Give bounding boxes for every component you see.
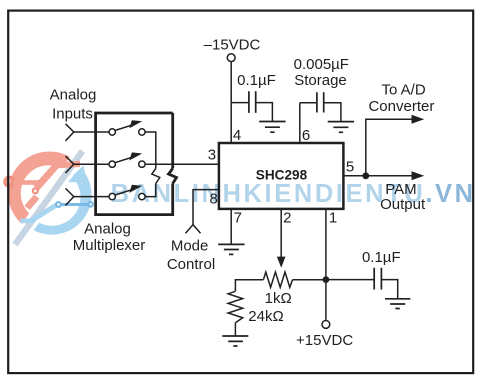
svg-text:To A/D: To A/D	[382, 82, 426, 99]
arrowhead pin2 down	[277, 257, 286, 268]
ground G4	[222, 336, 248, 346]
blue end donut	[88, 202, 93, 207]
red lower block	[25, 195, 40, 210]
wire pin3 from mux to SHC298	[145, 163, 219, 165]
junction dot node B (pin1/pot)	[323, 276, 330, 283]
red trace bar	[14, 180, 40, 185]
ground G5	[385, 299, 410, 309]
capacitor C1 0.1uF plates	[249, 91, 256, 113]
junction dot node A (pin5)	[362, 172, 369, 179]
switch S1 arm arrowhead	[129, 120, 142, 128]
wire row3	[74, 196, 109, 198]
switch S2 right contact	[139, 161, 145, 167]
wire cap3 to ground	[381, 280, 397, 299]
wire pin4 vertical	[230, 62, 232, 143]
wire pot right to node	[293, 279, 326, 281]
svg-text:Storage: Storage	[294, 72, 347, 89]
svg-text:0.005µF: 0.005µF	[294, 56, 349, 73]
svg-text:24kΩ: 24kΩ	[248, 308, 283, 325]
svg-text:1kΩ: 1kΩ	[265, 290, 292, 307]
wire pin5	[344, 175, 366, 177]
terminal -15VDC circle	[227, 54, 235, 62]
ground G3	[218, 244, 244, 254]
input chevron row3	[66, 188, 74, 205]
wire node to cap3	[326, 279, 374, 281]
pale slash	[12, 149, 85, 246]
mux right edge zigzag break	[169, 169, 177, 184]
svg-text:Analog: Analog	[50, 86, 97, 103]
svg-text:1: 1	[329, 210, 337, 227]
wire row1 output to bus	[145, 132, 156, 164]
red small donut	[33, 188, 38, 193]
svg-text:Converter: Converter	[368, 98, 434, 115]
svg-text:2: 2	[283, 210, 291, 227]
wire pot left	[235, 280, 263, 292]
potentiometer R1 1k zigzag	[263, 272, 292, 287]
wire cap2 branch	[300, 102, 317, 104]
switch S2 arm arrowhead	[129, 152, 142, 160]
svg-text:–15VDC: –15VDC	[204, 36, 261, 53]
wire pin8 mode control	[193, 190, 219, 225]
svg-text:6: 6	[302, 127, 310, 144]
wire cap1 branch	[231, 102, 249, 104]
ground G2	[328, 122, 354, 133]
svg-text:SHC298: SHC298	[256, 168, 308, 183]
switch arm row3	[115, 190, 133, 196]
wire pin2 down	[280, 209, 282, 259]
svg-text:0.1µF: 0.1µF	[237, 72, 276, 89]
resistor R2 24k zigzag	[228, 291, 243, 323]
svg-text:Multiplexer: Multiplexer	[73, 237, 146, 254]
wire R2 to ground	[234, 323, 236, 336]
svg-text:+15VDC: +15VDC	[296, 332, 353, 349]
white slash gap	[8, 145, 89, 250]
svg-text:Mode: Mode	[171, 237, 209, 254]
switch S1 right contact	[139, 129, 145, 135]
svg-text:0.1µF: 0.1µF	[362, 249, 401, 266]
wire pin1 down	[325, 209, 327, 321]
switch S1 left contact	[109, 129, 115, 135]
mode control chevron	[186, 225, 201, 234]
wire pin6 vertical	[299, 103, 301, 143]
capacitor C3 0.1uF plates	[374, 268, 381, 290]
arrowhead PAM	[412, 171, 425, 180]
wire cap2 to ground	[324, 103, 341, 122]
wire row2 chevron	[66, 156, 74, 173]
wire pin7 to ground	[230, 209, 232, 244]
wire PAM out	[366, 175, 413, 177]
SHC298 box	[219, 143, 344, 209]
blue arrow tip	[67, 166, 87, 183]
wire node up	[366, 119, 413, 176]
input chevron row1	[66, 124, 74, 141]
wire row3 output to bus with zigzag	[145, 164, 156, 196]
svg-text:7: 7	[234, 210, 242, 227]
watermark logo	[5, 145, 93, 250]
svg-text:Inputs: Inputs	[52, 105, 93, 122]
switch arm row2	[115, 157, 133, 163]
svg-text:5: 5	[346, 158, 354, 175]
capacitor C2 0.005uF plates	[317, 92, 324, 112]
svg-text:3: 3	[208, 146, 216, 163]
terminal +15VDC circle	[322, 321, 330, 329]
analog multiplexer box (right edge has break)	[96, 113, 173, 215]
switch S3 arm arrowhead	[129, 185, 142, 193]
svg-text:Control: Control	[167, 256, 215, 273]
switch S3 right contact	[139, 193, 145, 199]
svg-text:Analog: Analog	[84, 221, 131, 238]
blue trace right	[62, 203, 88, 206]
ground G1	[259, 122, 285, 133]
blue small donut	[56, 202, 61, 207]
switch S2 left contact	[109, 161, 115, 167]
blue diagonal bar	[21, 203, 59, 224]
wire cap1 to ground	[256, 103, 273, 122]
red ring crescent	[8, 152, 76, 225]
wire row2	[74, 163, 109, 165]
switch S3 left contact	[109, 193, 115, 199]
blue ring crescent	[27, 168, 92, 235]
arrowhead To A/D	[412, 115, 425, 124]
bus zigzag break	[152, 169, 160, 184]
svg-text:8: 8	[210, 191, 218, 208]
svg-text:Output: Output	[380, 196, 426, 213]
switch arm row1	[115, 125, 133, 131]
red diagonal bar	[34, 161, 81, 191]
svg-text:4: 4	[233, 127, 241, 144]
wire row1	[74, 131, 109, 133]
red trace big donut	[5, 177, 14, 186]
